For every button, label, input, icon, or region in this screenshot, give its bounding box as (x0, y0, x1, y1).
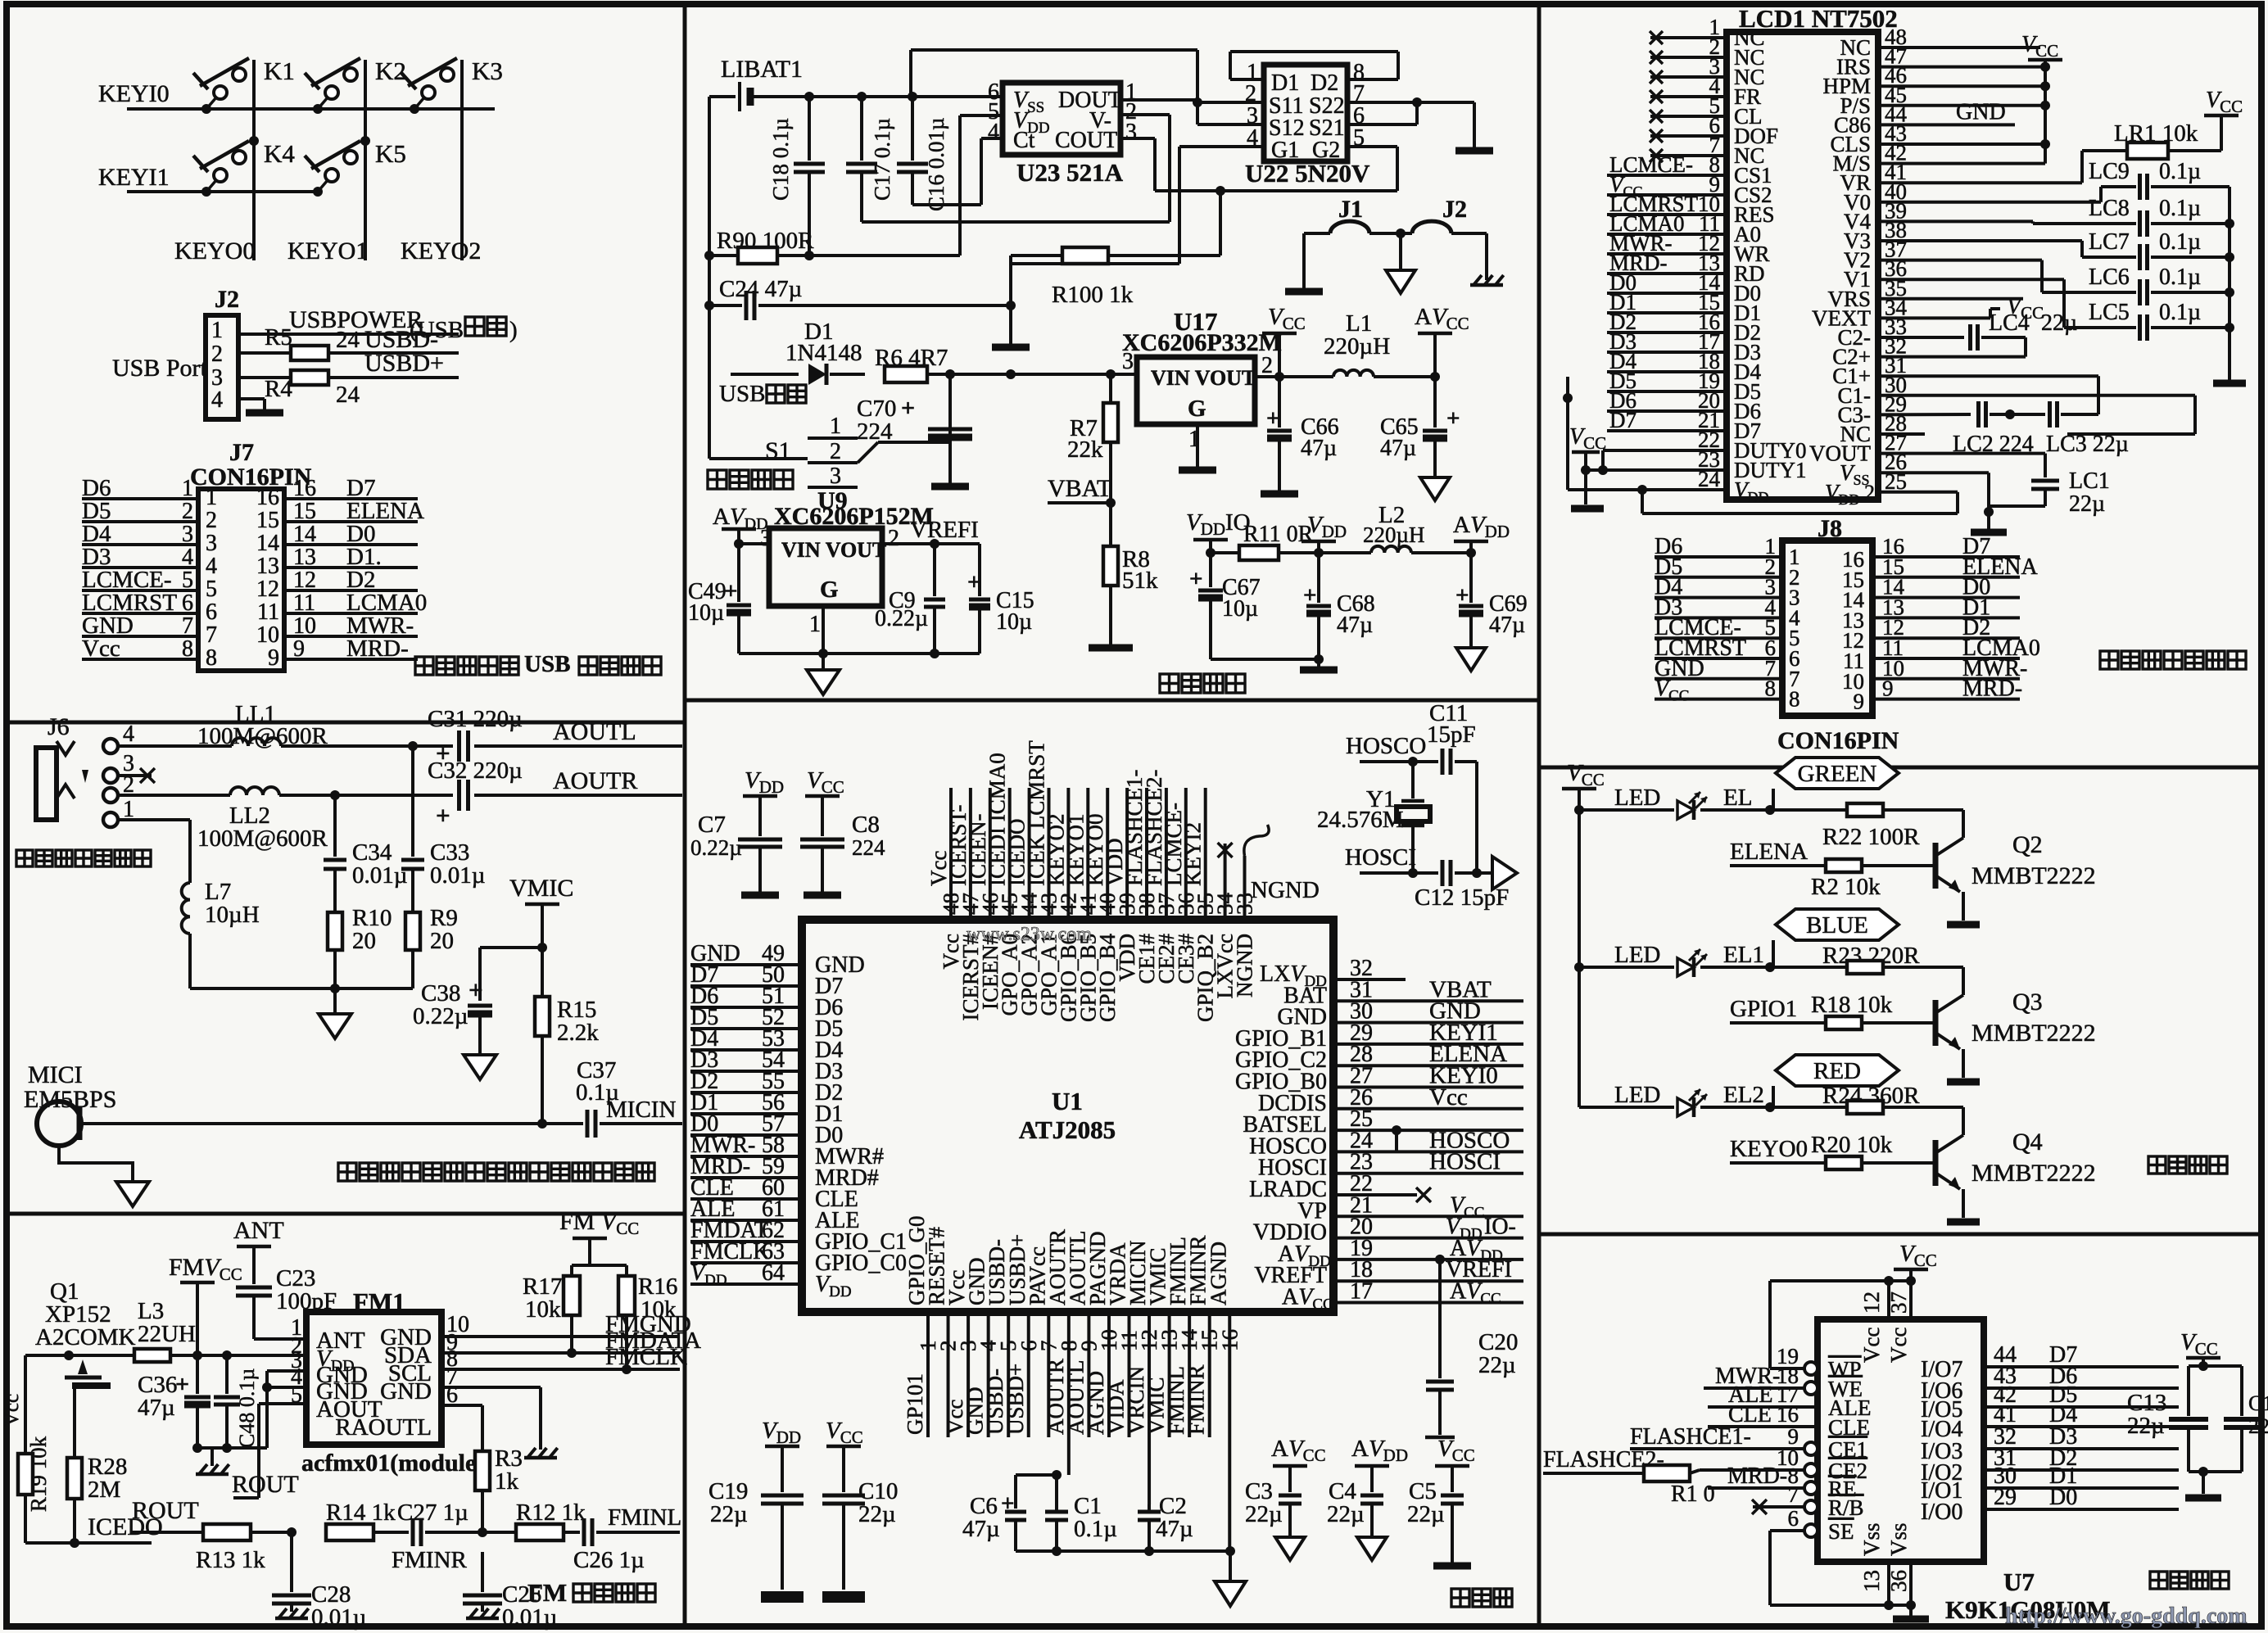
capacitor C9 (875, 544, 945, 654)
ic LCD1 label (1739, 4, 1898, 33)
node HOSCO xtal (1346, 733, 1438, 767)
capacitor LC6 (1878, 260, 2230, 305)
wire fm pin8 fmclk (441, 1344, 687, 1374)
svg-text:VMIC: VMIC (509, 875, 573, 902)
crystal Y1 (1317, 762, 1430, 873)
svg-text:Vss: Vss (1859, 1522, 1884, 1556)
resistor R14 (326, 1500, 409, 1540)
node KEYI0 (98, 80, 495, 109)
svg-text:0.1µ: 0.1µ (1074, 1516, 1117, 1542)
U1 pin 50 left (690, 962, 843, 999)
U1 pin 24 right (1249, 1127, 1510, 1159)
svg-text:LED: LED (1614, 785, 1660, 811)
ground u1 agnd (1215, 1551, 1246, 1606)
node GPIO1 (1730, 996, 1829, 1023)
svg-text:0.1µ: 0.1µ (2159, 159, 2201, 184)
svg-text:LC6: LC6 (2089, 265, 2130, 290)
LCD1 pin 30 right (1838, 373, 1908, 408)
LCD1 pin 10 (1607, 192, 1775, 227)
svg-text:12: 12 (256, 577, 279, 602)
ground u9 (807, 654, 840, 694)
svg-text:FM: FM (527, 1578, 573, 1607)
capacitor C4 (1327, 1436, 1408, 1560)
capacitor C70 (857, 374, 972, 491)
svg-text:2: 2 (206, 508, 217, 533)
LCD1 pin 16 (1607, 310, 1761, 345)
LCD1 pin 9 (1607, 172, 1772, 207)
wire u22 pin4 g1 (1011, 147, 1264, 305)
U1 pin 44 top (1005, 788, 1042, 1016)
svg-text:G1: G1 (1271, 138, 1299, 163)
caption panel2 (338, 1163, 654, 1181)
U1 pin 5 bottom (983, 1239, 1021, 1437)
svg-text:J2: J2 (1442, 196, 1467, 223)
wire u22 pin1 pin8 loop (1230, 52, 1398, 79)
svg-text:Vcc: Vcc (1859, 1328, 1884, 1363)
capacitor C23 (236, 1265, 337, 1341)
U1 pin 38 top (1122, 769, 1159, 984)
svg-text:EL2: EL2 (1723, 1082, 1764, 1108)
caption panel6 (2100, 651, 2246, 669)
svg-text:51k: 51k (1122, 568, 1158, 594)
svg-text:MRD-: MRD- (1727, 1463, 1787, 1489)
svg-text:COUT: COUT (1055, 128, 1117, 153)
svg-text:VCC: VCC (2206, 88, 2243, 116)
connector J6 jack (36, 713, 134, 827)
svg-text:VCC: VCC (1567, 760, 1605, 789)
svg-text:FLASHCE1-: FLASHCE1- (1630, 1424, 1751, 1450)
svg-text:U7: U7 (2003, 1567, 2035, 1596)
wire lcd pin 42 (1878, 162, 2045, 165)
LCD1 pin 21 (1607, 408, 1761, 443)
svg-text:+: + (1189, 566, 1203, 592)
svg-text:47µ: 47µ (962, 1516, 1000, 1542)
wire u23 top loop (911, 50, 1202, 124)
wire lcd pin30 c1m (1878, 396, 2195, 434)
svg-text:Vss: Vss (1886, 1522, 1911, 1556)
U1 pin 64 left (690, 1260, 852, 1301)
svg-text:1: 1 (211, 318, 223, 343)
svg-text:22µ: 22µ (710, 1501, 748, 1527)
wire fm pin6 (441, 1382, 482, 1451)
svg-text:10µ: 10µ (996, 609, 1032, 635)
svg-text:G: G (820, 577, 839, 603)
capacitor C24 (709, 276, 1016, 320)
svg-text:10: 10 (256, 622, 279, 648)
J8 pin 1 (1655, 534, 2020, 572)
svg-text:USBD+: USBD+ (1003, 1364, 1028, 1435)
label USB power (719, 381, 806, 407)
node ICEDO (25, 1513, 163, 1548)
wire u23 pin4 (912, 138, 1003, 205)
svg-text:7: 7 (1788, 1482, 1799, 1507)
svg-text:HOSCI: HOSCI (1345, 844, 1416, 871)
caption panel4 (1160, 674, 1245, 693)
svg-text:R5: R5 (265, 324, 292, 351)
svg-text:J7: J7 (229, 439, 254, 466)
wire battery rail top (804, 92, 1003, 102)
svg-text:D7: D7 (1609, 408, 1636, 432)
svg-text:VDD: VDD (690, 1260, 727, 1289)
wire fm pullup rail (572, 1265, 627, 1276)
wire lcd pin 43 (1878, 142, 2045, 146)
svg-text:K2: K2 (375, 57, 406, 85)
inductor LL2 (118, 787, 413, 852)
svg-text:AVCC: AVCC (1282, 1285, 1333, 1314)
wire J6 pin3 nc (118, 768, 155, 783)
wire flash vcc loop (1770, 1281, 1911, 1368)
svg-text:K3: K3 (472, 57, 503, 85)
panel divider left top (7, 721, 685, 725)
label USB power cn (410, 317, 518, 343)
switch K1 (193, 57, 295, 114)
J7 pin 7 left (82, 613, 217, 648)
label U9 (817, 487, 848, 514)
svg-text:Ct: Ct (1013, 128, 1035, 153)
J7 pin 14 right (256, 521, 418, 556)
LCD1 pin 25 right (1825, 469, 1907, 508)
capacitor LC4 (1878, 310, 2077, 357)
svg-text:12: 12 (1859, 1291, 1884, 1314)
connector J7 (190, 439, 312, 671)
svg-text:G2: G2 (1312, 138, 1340, 163)
inductor J2 (1396, 196, 1487, 280)
node Vcc u17 (1262, 304, 1306, 377)
capacitor C27 (397, 1500, 482, 1546)
microphone MIC1 (24, 1061, 547, 1146)
resistor R1 flash (1644, 1465, 1715, 1507)
svg-text:220µH: 220µH (1324, 333, 1390, 360)
panel divider vertical left (683, 4, 687, 1626)
U7 pin 16 (1708, 1402, 1870, 1440)
node NGND (1251, 877, 1320, 903)
LCD1 pin 29 right (1838, 391, 1908, 427)
svg-text:VCC: VCC (1268, 304, 1306, 333)
wire fm pin7 gnd (441, 1364, 558, 1458)
svg-text:K1: K1 (264, 57, 295, 85)
LCD1 pin 12 (1607, 231, 1770, 266)
node VREFI (882, 517, 980, 596)
node USBPOWER (238, 306, 459, 334)
svg-text:9: 9 (268, 645, 279, 671)
svg-text:www.s23w.com: www.s23w.com (967, 924, 1092, 945)
LCD1 pin 48 right (1840, 25, 1907, 60)
svg-text:LC7: LC7 (2089, 229, 2130, 255)
label U7 (2003, 1567, 2035, 1596)
svg-text:4: 4 (123, 722, 134, 747)
U1 pin 34 top (1213, 843, 1238, 998)
capacitor C65 (1380, 377, 1460, 477)
node FMVcc left (169, 1254, 242, 1355)
U7 pin 32 right (1921, 1424, 2179, 1464)
svg-text:6: 6 (206, 599, 217, 625)
U1 pin 58 left (690, 1133, 884, 1169)
svg-text:EL: EL (1723, 785, 1752, 811)
node FMINL (608, 1504, 681, 1531)
U1 pin 62 left (690, 1218, 907, 1255)
svg-text:VCC: VCC (2180, 1329, 2218, 1359)
svg-text:3: 3 (1122, 349, 1134, 374)
U1 pin 28 right (1235, 1041, 1523, 1073)
U7 pin 17 (1708, 1382, 1871, 1420)
J7 pin 9 right (268, 636, 418, 671)
svg-text:47µ: 47µ (1156, 1516, 1193, 1542)
resistor R17 (523, 1273, 580, 1350)
capacitor C67 (1189, 553, 1261, 659)
svg-text:2: 2 (888, 526, 899, 551)
capacitor C28 (272, 1532, 366, 1631)
LCD1 pin 26 right (1840, 450, 1907, 488)
node FMVcc right (559, 1208, 639, 1265)
J7 pin 2 left (82, 498, 217, 533)
LCD1 pin 40 right (1844, 179, 1907, 215)
connector J8 (1782, 515, 1872, 716)
LCD1 pin 13 (1607, 251, 1765, 286)
svg-text:R1 0: R1 0 (1671, 1481, 1715, 1507)
svg-text:1k: 1k (495, 1468, 519, 1495)
node VMIC (509, 875, 573, 952)
U1 pin 60 left (690, 1175, 858, 1212)
svg-text:VDD: VDD (762, 1418, 801, 1447)
J8 pin 8 (1655, 676, 2022, 714)
svg-text:+: + (967, 569, 981, 595)
U1 pin 4 bottom (963, 1258, 1001, 1438)
J8 pin 7 (1655, 656, 2027, 694)
svg-text:Q4: Q4 (2012, 1129, 2043, 1156)
svg-text:22µ: 22µ (1327, 1501, 1365, 1527)
resistor R24 (1770, 1083, 1963, 1114)
J8 pin 4 (1655, 595, 2020, 632)
ground j2 right (1470, 275, 1504, 285)
svg-text:R13 1k: R13 1k (196, 1547, 265, 1573)
U1 pin 8 bottom (1043, 1229, 1081, 1475)
wire audio gnd bus (190, 984, 413, 993)
svg-text:GPIO1: GPIO1 (1730, 996, 1797, 1022)
connector J2 (206, 286, 239, 419)
panel divider center (685, 699, 1539, 703)
svg-text:C27 1µ: C27 1µ (397, 1500, 469, 1526)
U7 pin 41 right (1921, 1402, 2179, 1442)
ground c65 (1420, 477, 1450, 500)
U1 pin 16 bottom (1206, 1242, 1242, 1551)
J8 pin 5 (1655, 615, 2020, 653)
capacitor C2 (1138, 1493, 1193, 1556)
svg-text:FMVCC: FMVCC (169, 1254, 242, 1284)
net flag BLUE (1773, 909, 1899, 967)
svg-text:47µ: 47µ (1489, 613, 1525, 638)
node ROUT a (232, 1471, 299, 1498)
svg-text:4: 4 (206, 554, 217, 579)
wire lcd pin28 (1878, 432, 1925, 436)
svg-text:RED: RED (1813, 1058, 1861, 1084)
svg-text:10µ: 10µ (688, 600, 724, 626)
svg-text:47µ: 47µ (1301, 436, 1337, 461)
svg-text:1: 1 (809, 612, 821, 637)
U1 pin 20 right (1253, 1215, 1523, 1246)
resistor R18 (1811, 992, 1935, 1029)
svg-text:KEYO1: KEYO1 (287, 237, 368, 265)
resistor R22 (1770, 803, 1963, 850)
U1 pin 42 top (1043, 788, 1080, 1022)
svg-text:0.01µ: 0.01µ (502, 1604, 557, 1631)
svg-text:USB: USB (524, 651, 570, 677)
capacitor C26 (573, 1518, 680, 1573)
U7 pin 29 right (1921, 1485, 2179, 1525)
resistor R4 (238, 350, 459, 408)
resistor LR1 (2082, 120, 2221, 159)
wire lcd pin25 vdd2 (1878, 492, 1958, 513)
capacitor C66 (1261, 377, 1339, 498)
J7 pin 4 left (82, 544, 217, 579)
node AOUTR (550, 767, 682, 795)
J7 pin 5 left (82, 567, 217, 602)
U7 pin 44 right (1921, 1342, 2179, 1382)
led EL2 (1579, 1082, 1775, 1117)
svg-text:AVDD: AVDD (1351, 1436, 1408, 1465)
node FLASHCE2- (1543, 1447, 1664, 1473)
watermark center (967, 924, 1092, 945)
capacitor LC5 (1878, 279, 2230, 341)
net flag GREEN (1773, 758, 1899, 810)
svg-text:10µ: 10µ (1222, 596, 1258, 622)
led EL (1579, 785, 1775, 820)
svg-text:29: 29 (1994, 1485, 2017, 1510)
svg-text:VDD: VDD (745, 767, 784, 797)
LCD1 pin 20 (1607, 388, 1761, 423)
svg-text:K5: K5 (375, 139, 406, 168)
svg-text:VIN VOUT: VIN VOUT (781, 538, 886, 562)
caption panel7 (2148, 1156, 2227, 1174)
LCD1 pin 18 (1607, 349, 1761, 384)
svg-text:J6: J6 (48, 713, 70, 740)
U7 pin 19 (1770, 1344, 1862, 1382)
wire lcd pin 47 (1878, 66, 2045, 69)
svg-text:4: 4 (988, 120, 999, 145)
svg-text:GND: GND (380, 1378, 432, 1405)
U1 pin 15 bottom (1184, 1235, 1222, 1437)
svg-text:USB: USB (719, 381, 765, 407)
svg-text:KEYO2: KEYO2 (401, 237, 481, 265)
ground r8 (1089, 645, 1133, 652)
svg-text:2: 2 (1261, 353, 1273, 378)
svg-text:FMINR: FMINR (392, 1547, 468, 1573)
J7 pin 3 left (82, 521, 217, 556)
wire K2 column (364, 60, 367, 260)
ground j2 mid (1386, 270, 1415, 293)
U1 pin 32 right (1260, 956, 1406, 990)
wire lcd pin31 c1p (1878, 376, 2098, 414)
ic FM1 module (306, 1287, 441, 1445)
LCD1 pin 32 right (1832, 334, 1907, 369)
svg-text:C7: C7 (698, 812, 726, 838)
svg-text:VDD: VDD (1186, 509, 1225, 539)
inductor L3 (134, 1298, 196, 1362)
ground hosci buffer (1492, 857, 1517, 889)
U1 pin 13 bottom (1144, 1247, 1182, 1437)
svg-text:1: 1 (206, 485, 217, 510)
svg-text:MMBT2222: MMBT2222 (1971, 1020, 2096, 1047)
U1 pin 31 right (1283, 976, 1523, 1008)
resistor R11 (1211, 522, 1319, 560)
svg-text:24: 24 (336, 382, 360, 408)
J7 pin 13 right (256, 544, 418, 579)
node VDDIO (1186, 509, 1251, 558)
svg-text:224: 224 (852, 835, 885, 860)
ground audio (319, 988, 351, 1038)
ground J2 pin4 (238, 399, 283, 417)
LCD1 pin 37 right (1844, 237, 1907, 273)
svg-text:Vcc: Vcc (1429, 1084, 1468, 1111)
resistor R7 (1067, 374, 1118, 503)
capacitor C37 (542, 1057, 682, 1138)
node AVDD u9 (722, 529, 769, 549)
svg-text:VDD: VDD (1307, 512, 1347, 541)
svg-text:LC9: LC9 (2089, 159, 2130, 184)
LCD1 pin 27 right (1809, 431, 1907, 466)
U1 pin 30 right (1277, 998, 1523, 1030)
capacitor C14 (2224, 1366, 2268, 1472)
svg-text:LED: LED (1614, 1082, 1660, 1108)
svg-text:K4: K4 (264, 139, 295, 168)
U1 pin 3 bottom (943, 1270, 980, 1437)
svg-text:VCC: VCC (807, 767, 844, 797)
J7 pin 15 right (256, 498, 424, 533)
capacitor C5 (1407, 1436, 1475, 1570)
U1 pin 55 left (690, 1069, 843, 1106)
node Vcc lcd rail (2021, 32, 2062, 164)
U1 pin 35 top (1181, 788, 1218, 1022)
LCD1 pin 28 right (1840, 411, 1907, 446)
U7 pin 30 right (1921, 1463, 2179, 1504)
inductor L2 (1319, 502, 1476, 558)
svg-text:SE: SE (1828, 1519, 1854, 1544)
wire u17 vout row (1255, 372, 1333, 382)
svg-text:13: 13 (1859, 1570, 1884, 1592)
capacitor C68 (1303, 553, 1375, 667)
svg-text:NGND: NGND (1233, 934, 1257, 997)
capacitor C15 (967, 569, 1034, 654)
U1 pin 61 left (690, 1196, 859, 1233)
switch S1 (709, 374, 950, 489)
LCD1 pin 24 (1563, 377, 1769, 505)
U7 pin 31 right (1921, 1445, 2179, 1486)
svg-text:C24 47µ: C24 47µ (719, 276, 802, 302)
LCD1 pin 15 (1607, 290, 1761, 325)
U1 pin 10 bottom (1084, 1231, 1121, 1437)
U1 pin 17 right (1282, 1279, 1523, 1314)
svg-text:VCC: VCC (826, 1418, 863, 1447)
resistor R2 (1811, 859, 1935, 900)
svg-text:14: 14 (256, 531, 279, 556)
capacitor C7 (690, 767, 784, 899)
ground u22 (1455, 147, 1493, 155)
U1 pin 63 left (690, 1239, 907, 1276)
U1 pin 43 top (1025, 740, 1062, 1016)
svg-text:CON16PIN: CON16PIN (1777, 727, 1899, 754)
node Vcc lcd left (1569, 424, 1606, 513)
svg-text:0.01µ: 0.01µ (352, 862, 407, 889)
wire hosco link (1333, 1150, 1523, 1153)
J8 pin 6 (1655, 636, 2040, 673)
svg-text:R11 0R: R11 0R (1243, 522, 1314, 547)
U1 pin 25 right (1243, 1106, 1523, 1151)
LCD1 pin 47 right (1836, 44, 1907, 79)
resistor R12 (482, 1500, 586, 1540)
LCD1 pin 33 right (1838, 314, 1908, 350)
J7 pin 6 left (82, 590, 217, 625)
svg-text:LIBAT1: LIBAT1 (721, 56, 803, 83)
ic U23 (988, 79, 1137, 187)
